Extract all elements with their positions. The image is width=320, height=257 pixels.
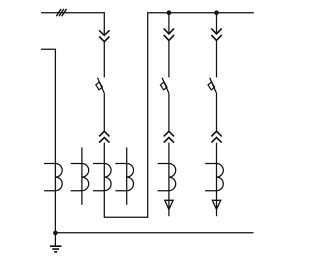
wire: feeder C through CT down to load arrow [216, 143, 218, 217]
fuse-switch Q2 blade (feeder B) [162, 78, 169, 94]
junction node on bus at feeder B [167, 10, 172, 15]
wire: feeder C between arrow and switch [216, 40, 218, 77]
flow arrow (double chevron down) feeder A [99, 30, 109, 41]
current transformer T3 (on feeder A) [93, 164, 111, 191]
fuse-switch Q2 fuse body (feeder B) [160, 82, 167, 90]
current transformer T4 winding [115, 164, 133, 191]
current transformer T5 (on feeder B) [158, 164, 176, 191]
current transformer T4 (standalone) wire [126, 147, 128, 204]
fuse-switch Q1 blade (feeder A) [98, 78, 105, 94]
fuse-switch Q1 fuse body (feeder A) [96, 82, 103, 90]
flow arrow (double chevron down) feeder C [211, 28, 221, 40]
flow arrow (double chevron up) feeder A [99, 131, 109, 142]
current transformer T1 (on left conductor) [44, 164, 62, 191]
wire: feeder B through CT down to load arrow [168, 143, 170, 217]
flow arrow (double chevron up) feeder C [211, 131, 221, 142]
load arrow (open triangle) feeder C [212, 200, 220, 209]
3-phase slashes on supply bus [56, 9, 66, 16]
wire: neutral/earth conductor stub and left drop [41, 49, 55, 233]
wire: feeder A between arrow and switch [103, 41, 105, 77]
current transformer T2 (standalone) wire [81, 147, 83, 204]
junction node on bus at feeder C [214, 10, 219, 15]
wire: feeder C drop from bus [216, 13, 218, 34]
current transformer T2 winding [71, 164, 89, 191]
wire: feeder B between arrow and switch [168, 40, 170, 77]
wire: feeder C between switch and up arrow [216, 93, 218, 131]
fuse-switch Q3 fuse body (feeder C) [208, 82, 215, 90]
wire: feeder B drop from bus [168, 13, 170, 34]
ground: stem [54, 233, 56, 246]
fuse-switch Q3 blade (feeder C) [210, 78, 217, 94]
wire: feeder B between switch and up arrow [168, 93, 170, 131]
wire: feeder A between switch and up arrow [103, 93, 105, 131]
wire: incoming supply bus (top-left) with drop to feeder A [41, 13, 104, 36]
load arrow (open triangle) feeder B [165, 200, 173, 209]
current transformer T6 (on feeder C) [205, 164, 223, 191]
ground: earth bars [50, 246, 62, 252]
wire: bottom earth bus [55, 232, 253, 234]
wire: feeder A down, along bottom, up to right bus, right bus run [104, 13, 254, 218]
flow arrow (double chevron up) feeder B [164, 131, 174, 142]
junction node at earth bus / left conductor [53, 231, 58, 236]
flow arrow (double chevron down) feeder B [164, 28, 174, 40]
